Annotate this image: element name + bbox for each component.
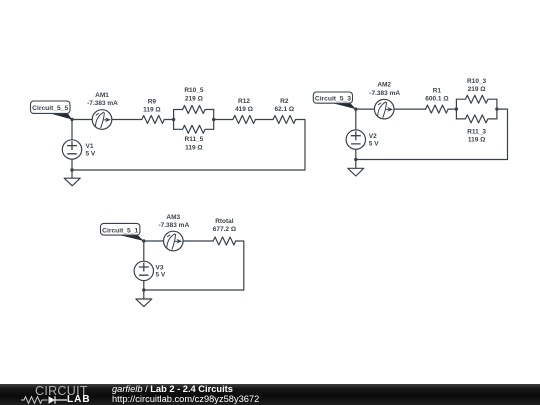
svg-text:Circuit_5_1: Circuit_5_1 xyxy=(102,227,138,234)
svg-text:419 Ω: 419 Ω xyxy=(235,106,253,113)
svg-text:R1: R1 xyxy=(433,87,442,94)
svg-text:R10_3: R10_3 xyxy=(467,78,487,85)
svg-text:R12: R12 xyxy=(238,98,250,105)
svg-text:62.1 Ω: 62.1 Ω xyxy=(274,106,294,113)
svg-text:AM2: AM2 xyxy=(377,82,391,89)
svg-text:219 Ω: 219 Ω xyxy=(468,86,486,93)
svg-text:AM3: AM3 xyxy=(166,214,180,221)
svg-text:R10_5: R10_5 xyxy=(184,87,204,94)
svg-text:R11_3: R11_3 xyxy=(467,128,486,135)
svg-text:Circuit_5_3: Circuit_5_3 xyxy=(315,95,351,102)
svg-text:5 V: 5 V xyxy=(369,140,379,147)
svg-text:R2: R2 xyxy=(280,98,289,105)
svg-text:Rtotal: Rtotal xyxy=(215,218,234,225)
svg-text:-7.383 mA: -7.383 mA xyxy=(369,90,400,97)
svg-text:Circuit_5_5: Circuit_5_5 xyxy=(32,105,68,112)
svg-text:V1: V1 xyxy=(86,143,94,150)
svg-text:5 V: 5 V xyxy=(156,272,166,279)
svg-text:V2: V2 xyxy=(369,133,377,140)
svg-text:677.2 Ω: 677.2 Ω xyxy=(213,226,236,233)
svg-text:119 Ω: 119 Ω xyxy=(143,106,161,113)
svg-text:V3: V3 xyxy=(156,265,164,272)
svg-text:219 Ω: 219 Ω xyxy=(185,96,203,103)
svg-text:600.1 Ω: 600.1 Ω xyxy=(425,95,448,102)
svg-text:R11_5: R11_5 xyxy=(185,136,204,143)
svg-text:R9: R9 xyxy=(148,99,157,106)
svg-text:AM1: AM1 xyxy=(95,92,109,99)
svg-text:119 Ω: 119 Ω xyxy=(185,144,203,151)
svg-text:5 V: 5 V xyxy=(86,151,96,158)
svg-text:-7.383 mA: -7.383 mA xyxy=(87,100,118,107)
svg-text:-7.383 mA: -7.383 mA xyxy=(158,222,189,229)
svg-text:119 Ω: 119 Ω xyxy=(468,136,486,143)
